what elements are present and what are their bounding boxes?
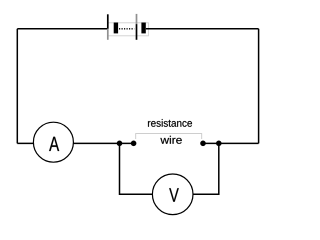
node junction dot 1	[117, 141, 123, 147]
wire left vertical	[16, 29, 18, 144]
label "wire"	[160, 136, 181, 144]
node junction dot 2	[131, 141, 137, 147]
wire right vertical	[258, 29, 260, 144]
node junction dot 3	[200, 141, 206, 147]
wire top-right segment	[146, 28, 259, 30]
battery dotted expansion line	[119, 28, 134, 30]
wire ammeter to left junction	[73, 142, 133, 144]
battery cell 1 long electrode (black above wire, gray below)	[107, 14, 109, 40]
ammeter A	[33, 122, 73, 162]
wire top-left segment	[17, 28, 108, 30]
wire voltmeter branch right	[193, 143, 219, 194]
battery outline box (gray)	[108, 23, 148, 36]
battery cell 2 long electrode (gray above, black below)	[136, 14, 138, 40]
wire left-bottom into ammeter	[17, 142, 33, 144]
wire voltmeter branch left	[120, 143, 153, 194]
node junction dot 4	[216, 141, 222, 147]
battery cell 1 short electrode	[114, 23, 118, 34]
label "resistance"	[148, 119, 192, 127]
battery cell 2 short electrode	[141, 23, 145, 34]
wire right junction to right side	[203, 142, 259, 144]
resistance wire (gray)	[136, 134, 202, 139]
voltmeter V	[152, 174, 193, 215]
